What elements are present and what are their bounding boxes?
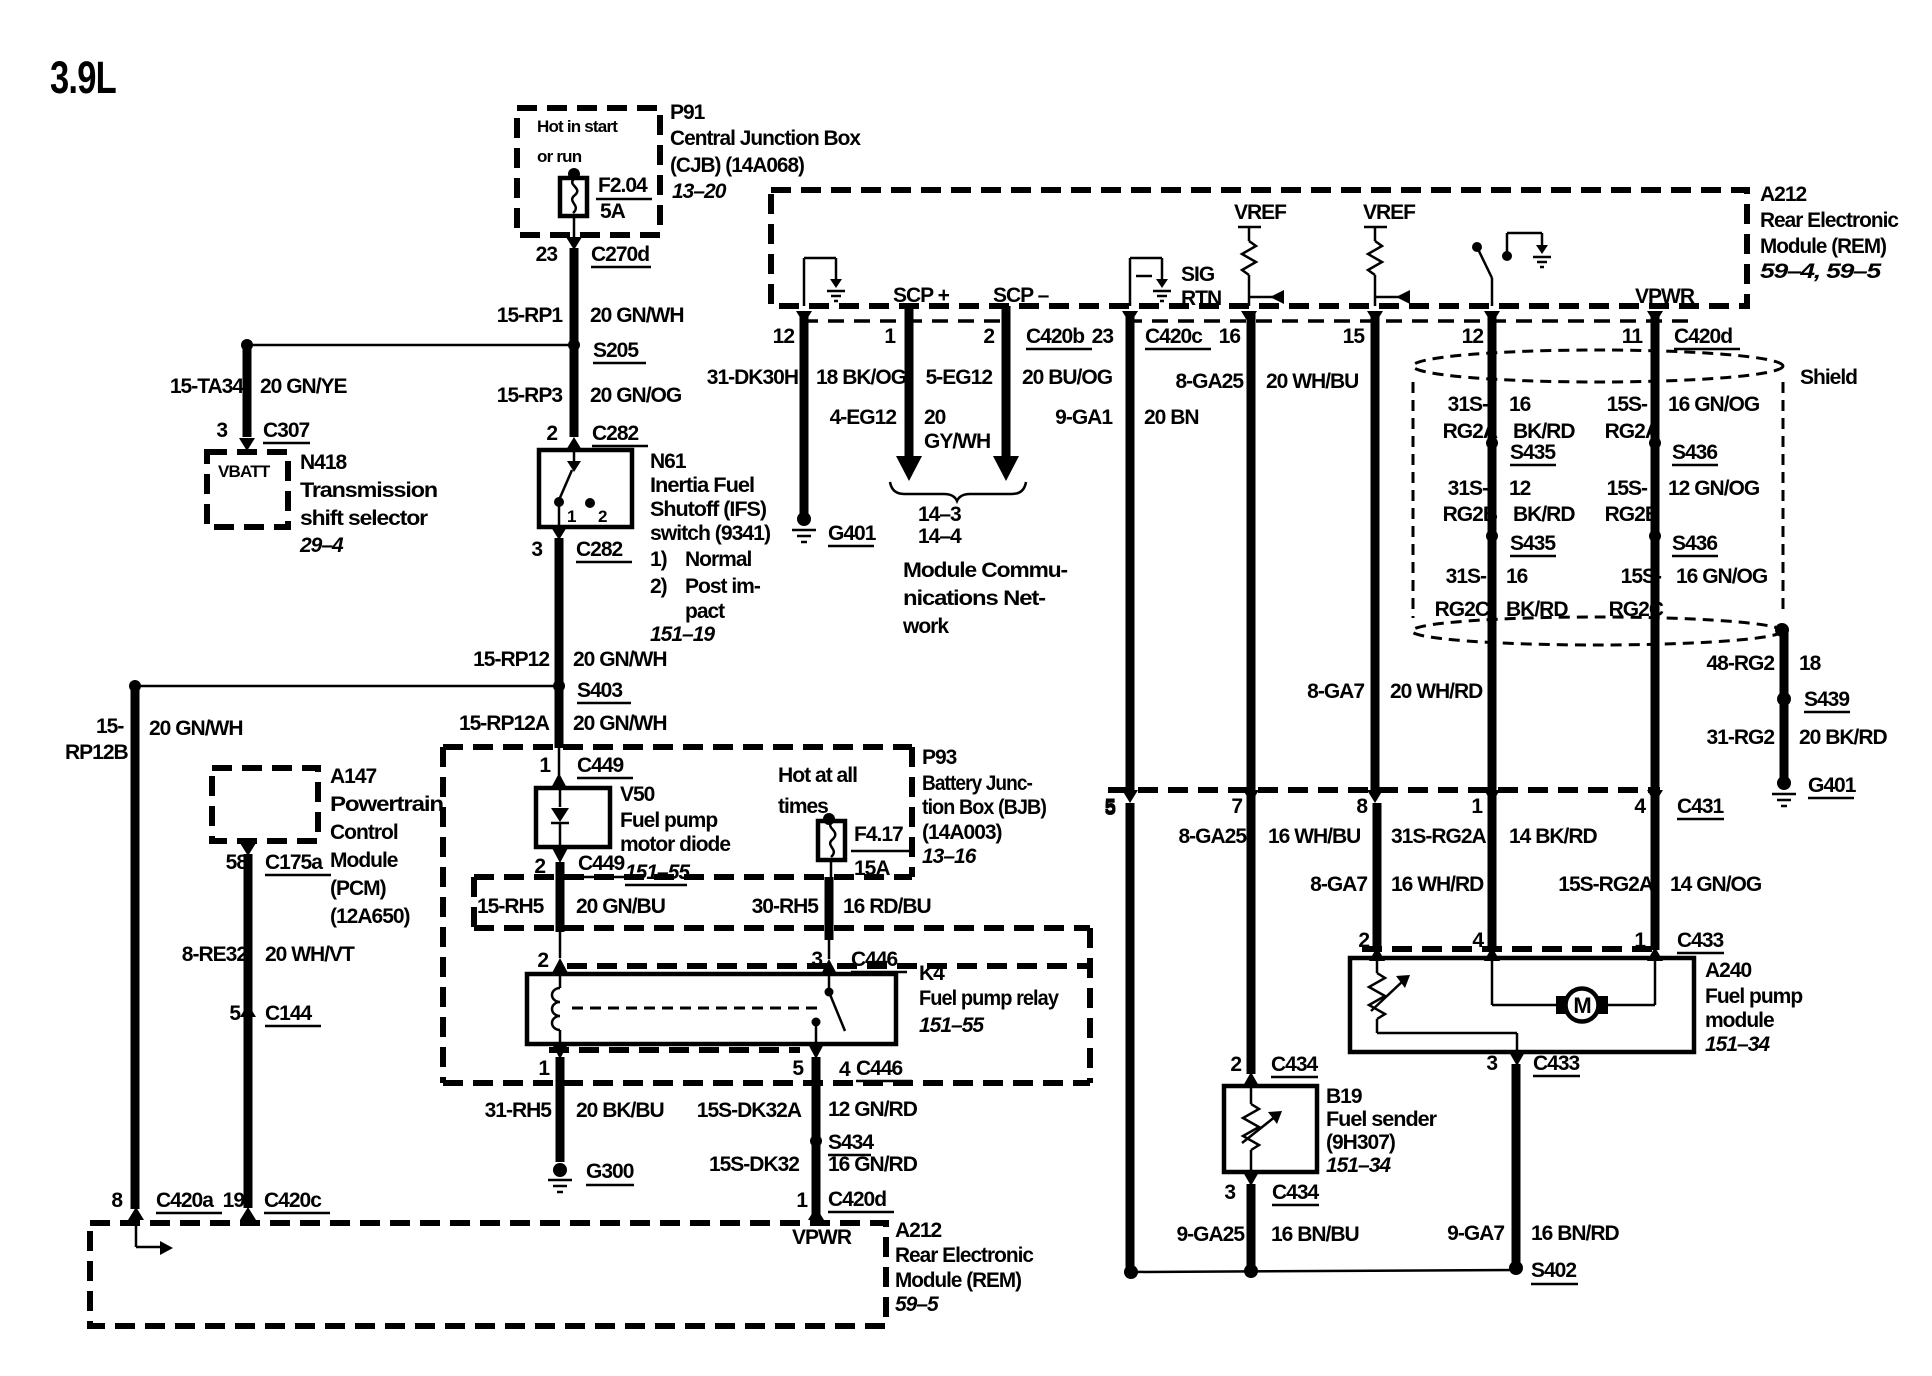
svg-text:shift selector: shift selector <box>300 507 428 530</box>
splice S436 upper <box>1649 437 1661 449</box>
svg-text:Inertia Fuel: Inertia Fuel <box>650 474 754 497</box>
svg-text:3: 3 <box>1224 1181 1235 1204</box>
svg-text:14 GN/OG: 14 GN/OG <box>1670 873 1762 896</box>
svg-text:A212: A212 <box>1760 183 1807 206</box>
svg-text:15A: 15A <box>854 857 890 880</box>
splice S439 <box>1777 692 1791 706</box>
wire 9-GA1 20 BN <box>1126 313 1135 790</box>
svg-text:RTN: RTN <box>1181 287 1221 310</box>
svg-text:20 BK/RD: 20 BK/RD <box>1799 726 1888 749</box>
wire 15-RH5 20 GN/BU <box>556 862 565 932</box>
svg-text:S434: S434 <box>828 1131 874 1154</box>
svg-text:Fuel pump relay: Fuel pump relay <box>919 987 1059 1010</box>
svg-text:S439: S439 <box>1804 688 1849 711</box>
module A147 PCM dashed box <box>212 768 318 841</box>
svg-text:B19: B19 <box>1326 1085 1362 1108</box>
pin arrow 58 C175a (down) <box>240 843 256 856</box>
svg-text:15S-: 15S- <box>1607 393 1648 416</box>
svg-text:18 BK/OG: 18 BK/OG <box>816 366 907 389</box>
module A240 fuel pump box <box>1350 958 1694 1052</box>
svg-text:16 BN/BU: 16 BN/BU <box>1271 1223 1359 1246</box>
wire 15S-DK32A 12 GN/RD <box>812 1057 821 1141</box>
svg-text:switch (9341): switch (9341) <box>650 522 770 545</box>
wire to relay pin 2 <box>559 930 562 958</box>
wire label box dashed <box>471 877 477 928</box>
svg-text:V50: V50 <box>620 783 655 806</box>
svg-text:C420d: C420d <box>1674 325 1732 348</box>
svg-text:31-RG2: 31-RG2 <box>1706 726 1774 749</box>
svg-text:16 WH/BU: 16 WH/BU <box>1268 825 1360 848</box>
svg-text:1: 1 <box>567 507 576 526</box>
svg-text:times: times <box>778 795 828 818</box>
svg-text:SCP +: SCP + <box>893 284 950 307</box>
svg-text:20 BN: 20 BN <box>1144 406 1199 429</box>
svg-text:Module: Module <box>330 849 398 872</box>
wire SCP- pin 2 with big arrow <box>1002 306 1011 458</box>
shield cylinder bottom ellipse <box>1412 617 1782 645</box>
svg-text:1: 1 <box>538 1057 550 1080</box>
node fuse top <box>568 168 580 180</box>
svg-text:C282: C282 <box>576 538 623 561</box>
wire branch to REM pin 8 <box>135 685 559 688</box>
svg-text:15S-: 15S- <box>1621 565 1662 588</box>
svg-text:or run: or run <box>537 147 582 166</box>
svg-text:SCP –: SCP – <box>993 284 1050 307</box>
svg-text:31-DK30H: 31-DK30H <box>707 366 798 389</box>
svg-text:20 WH/RD: 20 WH/RD <box>1390 680 1483 703</box>
svg-text:20 GN/WH: 20 GN/WH <box>573 648 667 671</box>
splice S205 <box>568 339 580 351</box>
svg-text:48-RG2: 48-RG2 <box>1706 652 1774 675</box>
svg-text:(PCM): (PCM) <box>330 877 386 900</box>
svg-text:SIG: SIG <box>1181 263 1215 286</box>
svg-text:pact: pact <box>685 600 725 623</box>
svg-text:4-EG12: 4-EG12 <box>830 406 897 429</box>
svg-text:1: 1 <box>884 325 896 348</box>
A240 motor branch <box>1491 958 1494 1005</box>
svg-text:151–55: 151–55 <box>625 861 690 884</box>
svg-text:8-GA25: 8-GA25 <box>1175 370 1244 393</box>
svg-text:Fuel pump: Fuel pump <box>620 809 717 832</box>
junction box P93 BJB dashed outline <box>443 744 912 750</box>
A240 resistor to pin 3 <box>1377 1032 1517 1035</box>
pin arrow 2 C449 (down) <box>552 848 568 863</box>
wire 15-RP1 20 GN/WH <box>570 248 579 345</box>
svg-text:K4: K4 <box>919 962 945 985</box>
pin arrow 3 C307 (down) <box>239 438 255 451</box>
B19 variable resistor <box>1250 1086 1253 1104</box>
svg-text:3.9L: 3.9L <box>50 52 116 103</box>
svg-text:C449: C449 <box>578 852 625 875</box>
svg-text:151–55: 151–55 <box>919 1014 984 1037</box>
svg-text:S403: S403 <box>577 679 622 702</box>
svg-text:A212: A212 <box>895 1219 942 1242</box>
pin arrow 1 C420d (up) <box>808 1207 824 1220</box>
svg-text:Post im-: Post im- <box>685 575 761 598</box>
svg-text:12: 12 <box>1509 477 1531 500</box>
svg-text:nications Net-: nications Net- <box>903 587 1046 610</box>
svg-text:151–34: 151–34 <box>1326 1154 1391 1177</box>
pin arrow 12 (down) <box>796 311 812 324</box>
svg-text:C307: C307 <box>263 419 310 442</box>
svg-text:A240: A240 <box>1705 959 1752 982</box>
svg-text:G401: G401 <box>1808 774 1857 797</box>
sender B19 fuel sender box <box>1224 1086 1317 1172</box>
module A212 REM bottom dashed box <box>90 1223 886 1326</box>
splice S435 upper <box>1486 437 1498 449</box>
svg-text:151–34: 151–34 <box>1705 1033 1770 1056</box>
svg-text:16 RD/BU: 16 RD/BU <box>843 895 931 918</box>
svg-text:2: 2 <box>546 422 557 445</box>
svg-text:19: 19 <box>223 1189 245 1212</box>
svg-text:16: 16 <box>1506 565 1528 588</box>
svg-text:Normal: Normal <box>685 548 752 571</box>
svg-text:tion Box (BJB): tion Box (BJB) <box>922 796 1046 819</box>
pin arrow 3 C446 (up) into K4 <box>821 959 837 974</box>
svg-text:16 BN/RD: 16 BN/RD <box>1531 1222 1620 1245</box>
svg-text:5-EG12: 5-EG12 <box>926 366 993 389</box>
svg-text:Module Commu-: Module Commu- <box>903 559 1068 582</box>
svg-text:S205: S205 <box>593 339 639 362</box>
svg-text:14 BK/RD: 14 BK/RD <box>1509 825 1598 848</box>
wire 9-GA25 left drop <box>1126 803 1135 1268</box>
wire 31-DK30H 18 BK/OG <box>800 313 809 519</box>
svg-text:14–4: 14–4 <box>918 525 962 548</box>
svg-text:Shutoff (IFS): Shutoff (IFS) <box>650 498 766 521</box>
svg-text:(12A650): (12A650) <box>330 905 410 928</box>
svg-text:9-GA25: 9-GA25 <box>1176 1223 1245 1246</box>
svg-text:23: 23 <box>536 243 558 266</box>
svg-text:P93: P93 <box>922 746 957 769</box>
svg-text:2: 2 <box>1358 929 1369 952</box>
REM internal switch <box>1472 242 1482 252</box>
wire 31-RH5 20 BK/BU <box>556 1057 565 1162</box>
svg-text:1): 1) <box>650 548 667 571</box>
fuse F2.04 5A <box>560 178 587 216</box>
pin arrows at C433 (up) <box>1369 947 1385 961</box>
svg-text:Fuel sender: Fuel sender <box>1326 1108 1437 1131</box>
REM internal ground at pin 12 <box>803 258 806 306</box>
svg-text:1: 1 <box>539 754 551 777</box>
svg-text:C433: C433 <box>1533 1052 1580 1075</box>
wire stub with arrow inside REM <box>136 1246 162 1249</box>
wire 48-RG2 18 <box>1780 630 1789 699</box>
svg-text:151–19: 151–19 <box>650 623 715 646</box>
wire 31S-RG2A 14 BK/RD <box>1373 803 1382 950</box>
switch N61 internals <box>573 450 576 463</box>
svg-text:C449: C449 <box>577 754 624 777</box>
svg-text:C144: C144 <box>265 1002 313 1025</box>
splice S435 lower <box>1486 530 1498 542</box>
svg-text:C420b: C420b <box>1026 325 1084 348</box>
svg-text:59–5: 59–5 <box>895 1293 939 1316</box>
svg-text:BK/RD: BK/RD <box>1513 503 1575 526</box>
wire 30-RH5 16 RD/BU <box>825 877 834 940</box>
wire 15-RP12A 20 GN/WH <box>555 686 564 748</box>
svg-text:C446: C446 <box>856 1057 903 1080</box>
brace under SCP wires <box>890 482 1026 501</box>
svg-text:Hot at all: Hot at all <box>778 764 857 787</box>
svg-text:2: 2 <box>598 507 607 526</box>
svg-text:RG2B: RG2B <box>1605 503 1660 526</box>
wire SCP+ pin 1 with big arrow <box>905 306 914 458</box>
svg-text:8: 8 <box>1356 795 1368 818</box>
svg-text:Hot in start: Hot in start <box>537 117 618 136</box>
svg-text:15S-: 15S- <box>1607 477 1648 500</box>
svg-text:12 GN/OG: 12 GN/OG <box>1668 477 1760 500</box>
svg-text:Fuel pump: Fuel pump <box>1705 985 1802 1008</box>
svg-text:BK/RD: BK/RD <box>1513 420 1575 443</box>
fuse F4.17 15A <box>818 821 845 860</box>
wire 15-RP12B 20 GN/WH <box>131 686 140 1209</box>
svg-text:20 GN/OG: 20 GN/OG <box>590 384 682 407</box>
label minus SIG RTN <box>1136 275 1152 278</box>
svg-text:15: 15 <box>1343 325 1366 348</box>
svg-text:16 GN/OG: 16 GN/OG <box>1676 565 1768 588</box>
svg-text:20 GN/BU: 20 GN/BU <box>576 895 665 918</box>
svg-text:31-RH5: 31-RH5 <box>485 1099 553 1122</box>
svg-text:16 GN/RD: 16 GN/RD <box>828 1153 918 1176</box>
diode V50 fuel pump motor diode <box>536 788 610 847</box>
svg-text:16 WH/RD: 16 WH/RD <box>1391 873 1484 896</box>
svg-text:15S-DK32: 15S-DK32 <box>709 1153 799 1176</box>
svg-text:C420c: C420c <box>1145 325 1203 348</box>
svg-text:C420d: C420d <box>828 1188 886 1211</box>
svg-text:1: 1 <box>1634 929 1646 952</box>
svg-text:F2.04: F2.04 <box>598 174 648 197</box>
pin arrow 19 C420c (up) <box>240 1207 256 1220</box>
splice dots S402 <box>1124 1265 1138 1279</box>
svg-text:20 GN/WH: 20 GN/WH <box>149 717 243 740</box>
wire S402 bus <box>1131 1270 1516 1272</box>
pin arrow 2 C282 (up) <box>566 437 582 450</box>
svg-text:module: module <box>1705 1009 1774 1032</box>
svg-text:F4.17: F4.17 <box>854 823 903 846</box>
wire 15S-DK32 16 GN/RD <box>812 1141 821 1218</box>
connector C433 dashed row <box>1362 946 1660 952</box>
svg-text:Shield: Shield <box>1800 366 1857 389</box>
svg-text:Module (REM): Module (REM) <box>895 1269 1021 1292</box>
svg-text:N61: N61 <box>650 450 687 473</box>
pin arrow 1 C449 (up) <box>558 748 561 775</box>
svg-text:VPWR: VPWR <box>1635 285 1695 308</box>
svg-text:5: 5 <box>229 1002 241 1025</box>
svg-text:Control: Control <box>330 821 398 844</box>
relay K4 coil <box>559 974 562 988</box>
svg-text:3: 3 <box>531 538 542 561</box>
svg-text:Powertrain: Powertrain <box>330 793 443 816</box>
svg-text:1: 1 <box>1471 795 1483 818</box>
wire 15-RP12 20 GN/WH <box>555 538 564 686</box>
pin arrow 16 (down) <box>1241 311 1257 324</box>
svg-text:31S-: 31S- <box>1448 393 1489 416</box>
pin arrow 5 C144 (up) <box>240 1004 256 1017</box>
svg-text:RG2B: RG2B <box>1443 503 1498 526</box>
resistor VREF2 <box>1368 241 1382 275</box>
relay K4 box <box>527 974 896 1044</box>
splice S434 <box>810 1135 822 1147</box>
pin arrow 15 (down) <box>1367 311 1383 324</box>
svg-text:N418: N418 <box>300 451 348 474</box>
svg-text:3: 3 <box>216 419 227 442</box>
wire 15-TA34 20 GN/YE <box>243 345 252 437</box>
junction box P91 (CJB) dashed outline <box>517 108 660 235</box>
svg-text:59–4, 59–5: 59–4, 59–5 <box>1760 260 1882 283</box>
svg-text:8-GA25: 8-GA25 <box>1178 825 1247 848</box>
svg-text:P91: P91 <box>670 101 706 124</box>
svg-text:M: M <box>1573 993 1590 1018</box>
pin arrow SIG RTN (down) <box>1122 311 1138 324</box>
svg-text:S435: S435 <box>1510 532 1556 555</box>
relay K4 switch <box>828 974 831 990</box>
pin arrow 3 C434 (down) <box>1243 1172 1259 1186</box>
svg-text:3: 3 <box>811 948 822 971</box>
svg-text:31S-RG2A: 31S-RG2A <box>1391 825 1487 848</box>
pin arrow 3 C433 (down) <box>1509 1052 1525 1066</box>
relay K4 link dashed <box>572 1007 820 1010</box>
svg-text:1: 1 <box>796 1189 808 1212</box>
svg-text:C433: C433 <box>1677 929 1724 952</box>
svg-text:12: 12 <box>1462 325 1484 348</box>
splice S436 lower <box>1649 530 1661 542</box>
svg-text:12 GN/RD: 12 GN/RD <box>828 1098 918 1121</box>
svg-text:2: 2 <box>534 855 545 878</box>
svg-text:C431: C431 <box>1677 795 1725 818</box>
wire 31-RG2 20 BK/RD <box>1780 699 1789 783</box>
svg-text:30-RH5: 30-RH5 <box>752 895 820 918</box>
svg-text:5: 5 <box>792 1057 804 1080</box>
svg-text:15-RP12A: 15-RP12A <box>459 712 550 735</box>
svg-text:8-GA7: 8-GA7 <box>1307 680 1364 703</box>
svg-text:2: 2 <box>537 949 548 972</box>
svg-text:Module (REM): Module (REM) <box>1760 235 1886 258</box>
svg-text:C434: C434 <box>1271 1053 1319 1076</box>
pin arrow 8 C420a (up) <box>128 1207 144 1220</box>
svg-text:13–16: 13–16 <box>922 845 977 868</box>
wire fuse to connector C270d <box>573 216 576 238</box>
svg-text:C446: C446 <box>851 948 898 971</box>
module N418 transmission shift selector dashed box <box>207 452 288 527</box>
svg-text:18: 18 <box>1799 652 1822 675</box>
shield cylinder sides <box>1412 382 1415 618</box>
svg-text:RG2C: RG2C <box>1435 598 1490 621</box>
module A212 REM top dashed box <box>771 190 1747 306</box>
svg-text:5A: 5A <box>600 200 626 223</box>
svg-text:Battery Junc-: Battery Junc- <box>922 772 1033 795</box>
pin arrow 3 C282 (down) <box>551 527 567 540</box>
svg-text:2): 2) <box>650 575 667 598</box>
svg-text:13–20: 13–20 <box>672 180 727 203</box>
svg-text:11: 11 <box>1622 325 1644 348</box>
arrow flag VREF1 <box>1249 296 1274 299</box>
svg-text:20 GN/YE: 20 GN/YE <box>260 375 348 398</box>
wire 8-GA25 20 WH/BU <box>1247 313 1256 1074</box>
wire branch to transmission shift selector <box>247 344 574 347</box>
svg-text:31S-: 31S- <box>1446 565 1487 588</box>
svg-text:BK/RD: BK/RD <box>1506 598 1568 621</box>
pin arrows at C431 (down) <box>1122 790 1138 803</box>
svg-text:VPWR: VPWR <box>792 1226 852 1249</box>
wire fuse to 30-RH5 <box>830 860 833 880</box>
ground G401 left <box>797 512 811 526</box>
connector C431 dashed row <box>1108 787 1660 793</box>
svg-text:C282: C282 <box>592 422 639 445</box>
svg-text:2: 2 <box>1230 1053 1241 1076</box>
svg-text:29–4: 29–4 <box>299 534 344 557</box>
REM internal ground bracket <box>1502 251 1512 261</box>
svg-text:(CJB) (14A068): (CJB) (14A068) <box>670 154 804 177</box>
svg-text:S436: S436 <box>1672 441 1717 464</box>
svg-text:5: 5 <box>1104 795 1116 818</box>
svg-text:31S-: 31S- <box>1448 477 1489 500</box>
svg-text:16 GN/OG: 16 GN/OG <box>1668 393 1760 416</box>
svg-text:RG2C: RG2C <box>1609 598 1664 621</box>
svg-text:(9H307): (9H307) <box>1326 1131 1395 1154</box>
svg-text:15-RP1: 15-RP1 <box>497 304 564 327</box>
svg-text:15S-DK32A: 15S-DK32A <box>697 1099 802 1122</box>
svg-text:C434: C434 <box>1272 1181 1320 1204</box>
svg-text:8: 8 <box>111 1189 123 1212</box>
svg-text:15-RP3: 15-RP3 <box>497 384 563 407</box>
svg-text:VREF: VREF <box>1234 201 1287 224</box>
svg-text:4: 4 <box>1634 795 1646 818</box>
svg-text:VBATT: VBATT <box>218 462 271 481</box>
svg-text:15-RH5: 15-RH5 <box>477 895 545 918</box>
connector dashed line C420 row <box>802 319 1004 323</box>
svg-text:work: work <box>902 615 949 638</box>
pin arrow C270d (down) <box>566 237 582 250</box>
resistor VREF1 <box>1242 241 1256 275</box>
svg-text:15S-RG2A: 15S-RG2A <box>1558 873 1654 896</box>
svg-text:20 BU/OG: 20 BU/OG <box>1022 366 1113 389</box>
svg-text:motor diode: motor diode <box>620 833 730 856</box>
node shield drain <box>1775 623 1789 637</box>
svg-text:20 GN/WH: 20 GN/WH <box>590 304 684 327</box>
pin arrow 5 / 4 C446 (down) from K4 <box>808 1044 824 1059</box>
svg-text:20 BK/BU: 20 BK/BU <box>576 1099 664 1122</box>
svg-text:20 GN/WH: 20 GN/WH <box>573 712 667 735</box>
switch N61 inertia fuel shutoff box <box>539 450 632 527</box>
svg-text:4: 4 <box>839 1058 851 1081</box>
A240 variable resistor <box>1376 958 1379 973</box>
svg-text:Rear Electronic: Rear Electronic <box>1760 209 1899 232</box>
svg-text:20: 20 <box>924 406 946 429</box>
REM internal ground SIG RTN <box>1129 258 1132 306</box>
svg-text:VREF: VREF <box>1363 201 1416 224</box>
node branch corner <box>241 339 253 351</box>
node fuse F4.17 top <box>823 813 835 825</box>
wire to relay pin 3 <box>828 938 831 959</box>
svg-text:C175a: C175a <box>265 851 323 874</box>
arrow flag VREF2 <box>1375 296 1400 299</box>
splice S403 <box>553 680 565 692</box>
svg-text:16: 16 <box>1219 325 1241 348</box>
wire pin12 shield A <box>1488 313 1497 950</box>
svg-text:20 WH/VT: 20 WH/VT <box>265 943 355 966</box>
svg-text:C270d: C270d <box>591 243 649 266</box>
svg-text:S402: S402 <box>1531 1259 1576 1282</box>
svg-text:14–3: 14–3 <box>918 503 961 526</box>
svg-text:S436: S436 <box>1672 532 1717 555</box>
svg-text:4: 4 <box>1472 929 1484 952</box>
svg-text:15-TA34: 15-TA34 <box>170 375 244 398</box>
svg-text:RP12B: RP12B <box>65 741 129 764</box>
svg-text:15-: 15- <box>96 715 124 738</box>
shield cylinder top ellipse <box>1413 350 1783 382</box>
svg-text:16: 16 <box>1509 393 1531 416</box>
svg-text:G300: G300 <box>586 1160 634 1183</box>
svg-text:(14A003): (14A003) <box>922 821 1002 844</box>
